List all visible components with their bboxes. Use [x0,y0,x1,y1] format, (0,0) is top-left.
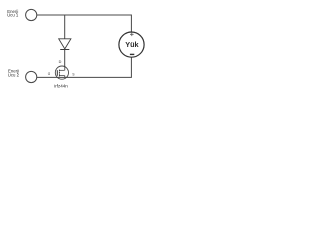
svg-text:Ucu 2: Ucu 2 [8,73,20,78]
svg-text:S: S [72,73,74,77]
svg-text:Yük: Yük [125,40,139,49]
svg-text:D: D [59,60,62,64]
svg-text:irfz44n: irfz44n [54,83,68,88]
svg-text:G: G [48,72,51,76]
svg-text:Ucu 1: Ucu 1 [7,13,19,18]
